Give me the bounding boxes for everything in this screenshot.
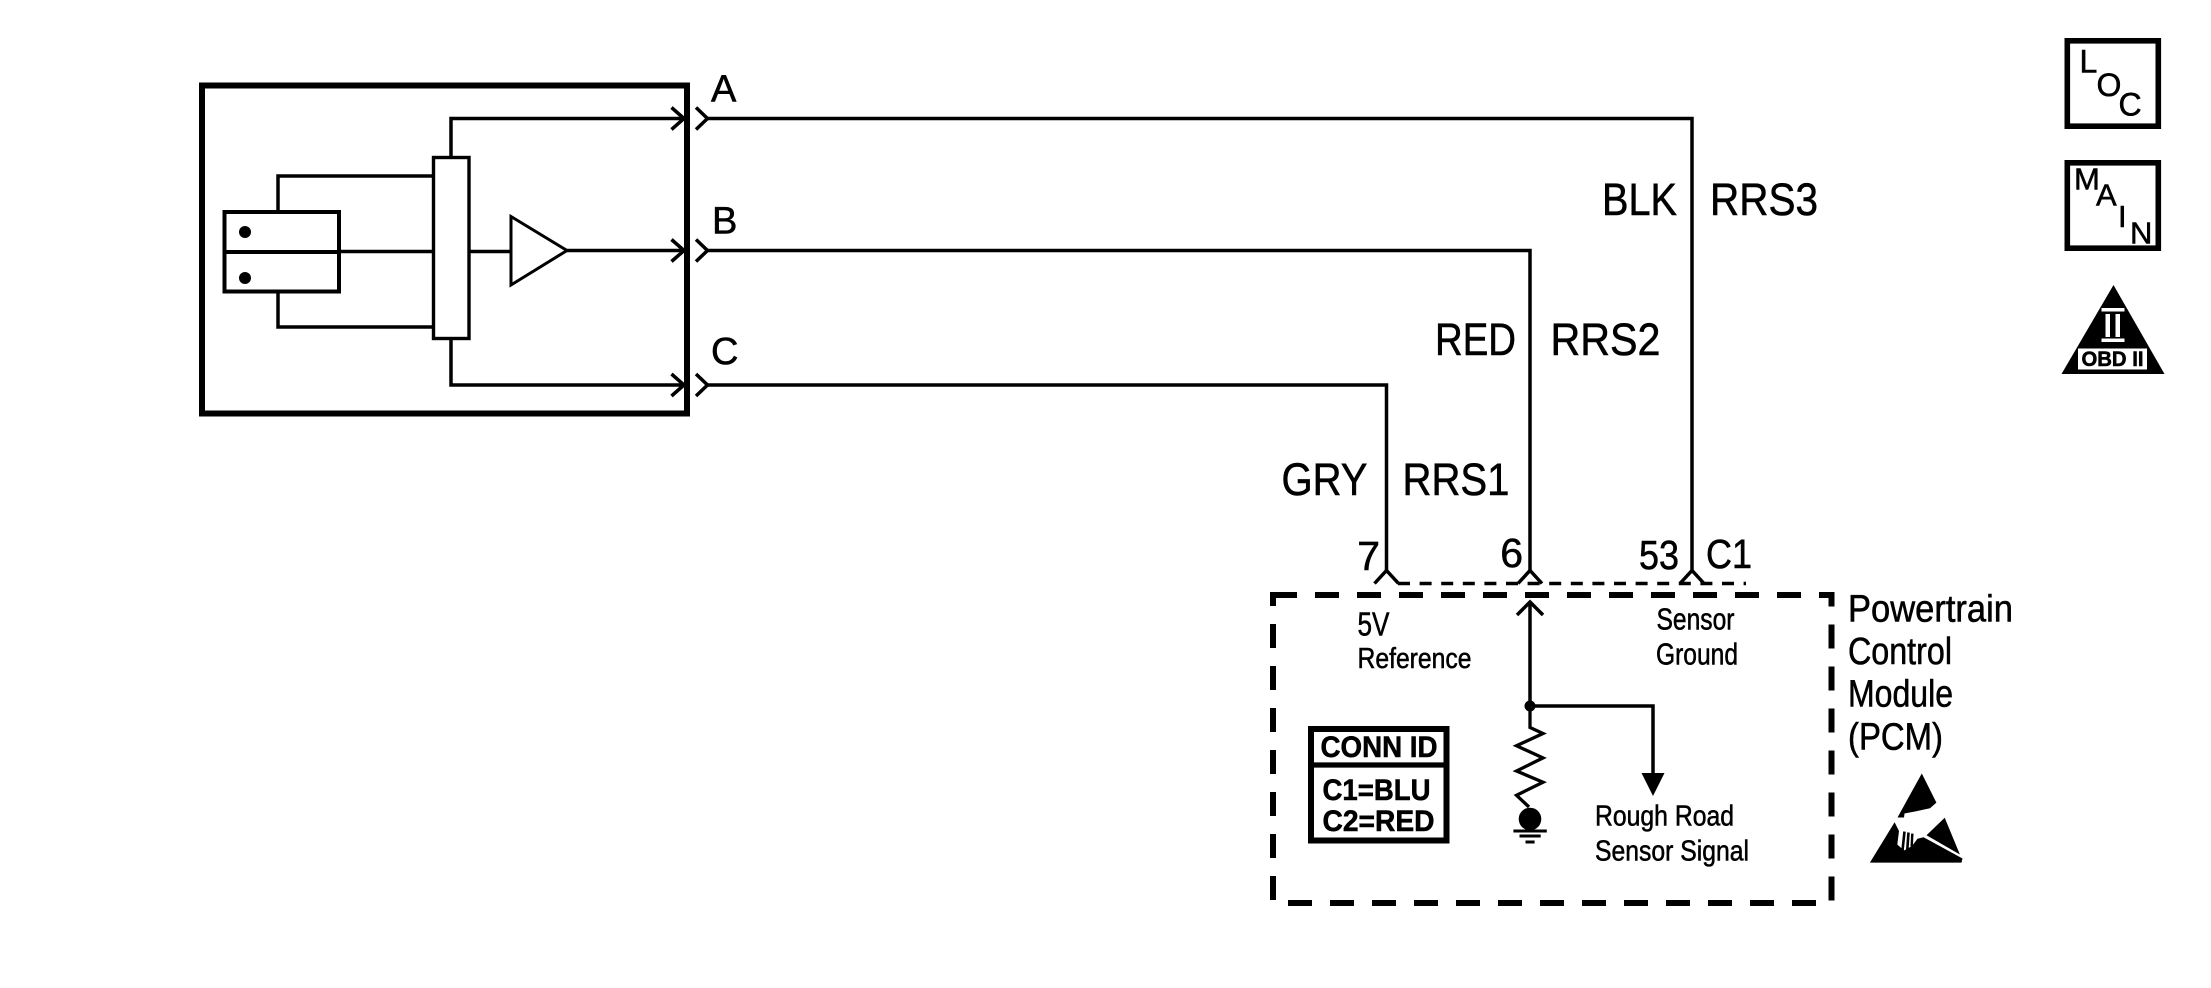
- svg-text:C: C: [711, 331, 738, 373]
- wire: piezo top loop wire to coupling bar: [278, 176, 435, 212]
- svg-text:RED: RED: [1435, 314, 1516, 365]
- svg-text:RRS3: RRS3: [1710, 174, 1818, 225]
- ground bar 2: [1520, 835, 1541, 838]
- arrowhead at pin B inside: [672, 240, 685, 262]
- svg-text:RRS1: RRS1: [1403, 454, 1510, 505]
- connector fork PCM pin 6: [1518, 571, 1542, 584]
- svg-text:B: B: [712, 201, 737, 243]
- wire RRS2 RED: pin B to PCM pin 6: [708, 251, 1531, 571]
- connector chevron pin B: [696, 240, 708, 262]
- wire: pin 6 down to junction: [1528, 602, 1532, 706]
- connector dashed line: [1398, 582, 1746, 586]
- svg-text:C1: C1: [1706, 531, 1752, 577]
- svg-text:CONN ID: CONN ID: [1321, 731, 1438, 764]
- arrowhead at pin A inside: [672, 108, 685, 130]
- wire: piezo internal middle wire to buffer input: [225, 250, 512, 254]
- op-amp buffer triangle: [511, 217, 567, 286]
- connector chevron pin C: [696, 374, 708, 396]
- svg-text:Ground: Ground: [1656, 637, 1738, 672]
- svg-text:GRY: GRY: [1282, 454, 1368, 505]
- connector fork PCM pin 53: [1680, 571, 1704, 584]
- svg-text:RRS2: RRS2: [1551, 314, 1661, 365]
- svg-text:53: 53: [1639, 532, 1679, 578]
- rough road sensor outer box: [202, 86, 687, 414]
- svg-text:BLK: BLK: [1602, 174, 1677, 225]
- wire RRS3 BLK: pin A to PCM pin 53: [708, 119, 1693, 571]
- svg-text:L: L: [2080, 44, 2098, 80]
- svg-text:(PCM): (PCM): [1848, 717, 1943, 759]
- piezo contact dot upper: [239, 226, 251, 238]
- arrowhead up at PCM pin 6: [1517, 602, 1543, 615]
- svg-text:I: I: [2118, 199, 2127, 234]
- piezo sensing element (2-contact block): [225, 212, 340, 292]
- ground bar 3: [1526, 841, 1535, 844]
- wire: buffer output to pin B: [567, 249, 684, 253]
- svg-text:C1=BLU: C1=BLU: [1323, 774, 1431, 807]
- arrowhead at pin C inside: [672, 374, 685, 396]
- coupling bar element: [434, 158, 470, 339]
- svg-text:Sensor: Sensor: [1657, 602, 1735, 637]
- ground ball: [1519, 808, 1542, 831]
- OBD II triangle symbol: [2062, 285, 2165, 374]
- CONN ID table divider: [1310, 762, 1447, 767]
- svg-text:Reference: Reference: [1358, 643, 1472, 675]
- CONN ID table box: [1311, 729, 1447, 841]
- svg-text:OBD II: OBD II: [2082, 348, 2144, 371]
- svg-text:C2=RED: C2=RED: [1323, 805, 1435, 838]
- svg-text:5V: 5V: [1358, 606, 1390, 643]
- svg-text:7: 7: [1357, 533, 1380, 579]
- MAIN reference box: [2067, 163, 2158, 248]
- piezo contact dot lower: [239, 272, 251, 284]
- svg-text:Sensor Signal: Sensor Signal: [1595, 836, 1749, 868]
- svg-text:A: A: [711, 69, 737, 111]
- svg-text:Powertrain: Powertrain: [1848, 588, 2013, 630]
- arrowhead down rough road sensor signal: [1642, 773, 1665, 796]
- svg-text:6: 6: [1500, 530, 1523, 576]
- svg-text:Rough Road: Rough Road: [1595, 801, 1734, 833]
- resistor R pull: [1517, 706, 1544, 807]
- wire: branch to signal arrow: [1530, 706, 1653, 775]
- wire: piezo bottom loop wire to coupling bar: [278, 292, 435, 328]
- connector fork PCM pin 7: [1375, 571, 1399, 584]
- ground bar 1: [1513, 830, 1546, 833]
- connector chevron pin A: [696, 108, 708, 130]
- wire RRS1 GRY: pin C to PCM pin 7: [708, 385, 1387, 571]
- svg-text:Module: Module: [1848, 673, 1953, 715]
- wire: bar bottom to pin C: [451, 339, 684, 386]
- svg-text:C: C: [2119, 87, 2142, 123]
- piezo element divider: [225, 250, 340, 254]
- svg-text:N: N: [2130, 216, 2152, 251]
- wire: bar top to pin A: [451, 119, 684, 158]
- svg-text:Control: Control: [1848, 631, 1952, 673]
- ESD warning symbol: [1870, 774, 1963, 863]
- svg-text:A: A: [2096, 178, 2117, 213]
- LOC reference box: [2067, 41, 2158, 126]
- PCM dashed box: [1273, 595, 1832, 903]
- junction node: [1525, 701, 1536, 712]
